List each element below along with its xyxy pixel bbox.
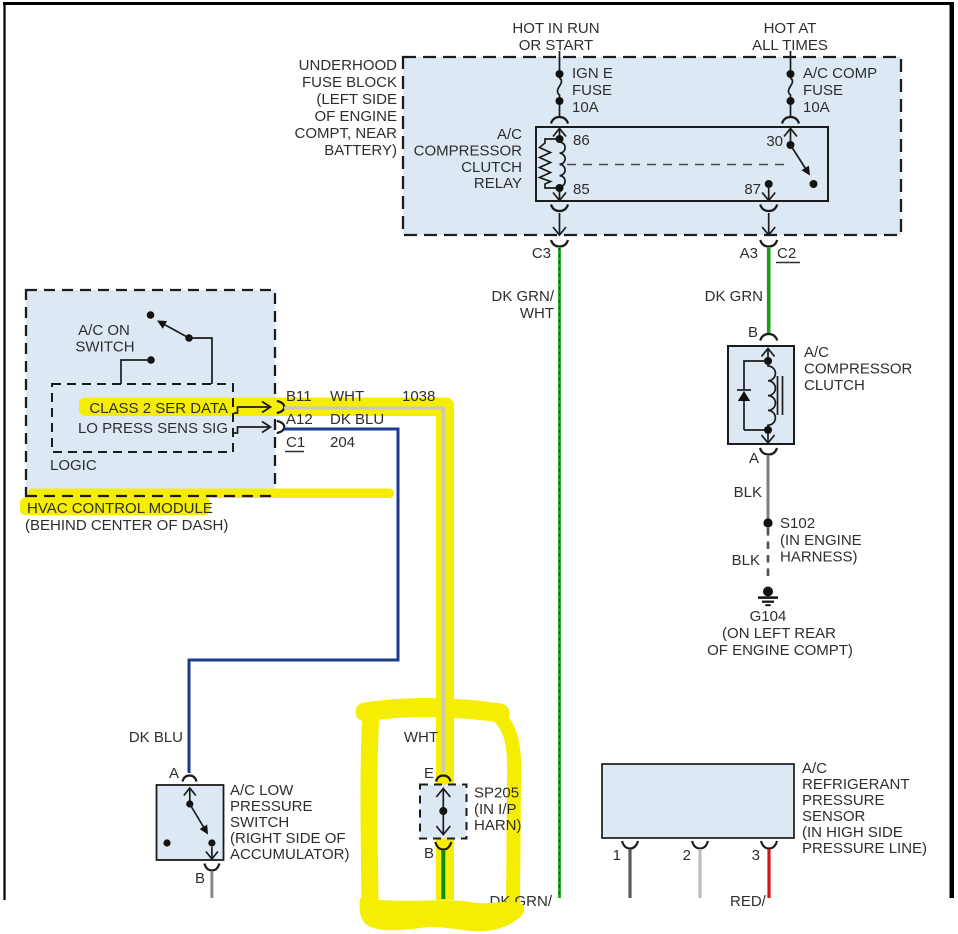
- wire highlight vertical band over WHT wire: [436, 402, 454, 900]
- svg-text:B: B: [748, 324, 758, 341]
- svg-text:C2: C2: [777, 245, 796, 262]
- svg-text:2: 2: [683, 847, 691, 864]
- arrow CLASS 2 SER DATA to pin B11: [234, 402, 271, 414]
- arrow at fuse block edge A3: [762, 227, 775, 235]
- relay pin 86 arrow: [553, 129, 566, 140]
- svg-text:85: 85: [573, 181, 590, 198]
- splice SP205 box: [420, 785, 522, 839]
- relay pin 30 arrow: [784, 129, 797, 146]
- ground G104: [707, 587, 853, 660]
- pressure switch pin A arrow: [184, 788, 196, 804]
- pressure switch pivot dot: [186, 800, 193, 807]
- wire sensor pin 2: [698, 849, 701, 898]
- svg-text:A/C COMP: A/C COMP: [803, 65, 877, 82]
- svg-text:SP205: SP205: [474, 785, 519, 802]
- wire BLK dashed S102 to ground: [767, 528, 770, 581]
- connector cup C3: [551, 240, 568, 247]
- svg-text:IGN E: IGN E: [572, 65, 613, 82]
- clutch pin A arrow down: [762, 434, 775, 443]
- A/C on switch lower contact dot: [147, 356, 155, 364]
- connector cup pin B11: [277, 401, 285, 413]
- svg-text:CLUTCH: CLUTCH: [461, 159, 522, 176]
- A/C on switch arm: [157, 321, 189, 339]
- relay coil inductor bumps: [560, 139, 566, 188]
- connector cup SP205 pin E: [436, 776, 451, 782]
- wire DK BLU from A12 to pressure switch: [189, 429, 398, 773]
- underhood fuse block label: [294, 57, 397, 159]
- svg-text:1038: 1038: [402, 388, 435, 405]
- svg-text:FUSE: FUSE: [803, 82, 843, 99]
- node label HOT IN RUN OR START: [512, 20, 599, 54]
- wire WHT from B11 to SP205: [284, 408, 443, 772]
- module bottom dashed edge redrawn over highlight: [26, 495, 275, 497]
- wire sensor pin 1: [628, 849, 631, 898]
- logic box inside HVAC module: [50, 384, 233, 474]
- connector cup sensor pin 1: [622, 841, 638, 849]
- svg-text:RED/: RED/: [730, 893, 767, 910]
- wire DK GRN/WHT from C3 down page: [558, 248, 561, 898]
- highlight streak along module bottom edge: [28, 489, 394, 499]
- svg-text:WHT: WHT: [520, 305, 554, 322]
- fuse F1 IGN E FUSE 10A: [556, 65, 613, 116]
- connector label C1 underlined: [285, 434, 305, 452]
- svg-text:HOT IN RUN: HOT IN RUN: [512, 20, 599, 37]
- svg-text:(IN I/P: (IN I/P: [474, 801, 517, 818]
- node label HOT AT ALL TIMES: [752, 20, 828, 54]
- relay pin 87 arrow down: [762, 188, 775, 201]
- hand-drawn highlighter loop around SP205 (left edge): [369, 713, 371, 903]
- clutch top junction dot: [764, 357, 772, 365]
- svg-text:COMPRESSOR: COMPRESSOR: [414, 143, 523, 160]
- A/C compressor clutch U2: [728, 344, 913, 444]
- wire fuse F2 to relay pin 30: [790, 105, 792, 116]
- svg-text:HARNESS): HARNESS): [780, 549, 858, 566]
- svg-text:204: 204: [330, 434, 355, 451]
- svg-text:CLUTCH: CLUTCH: [804, 377, 865, 394]
- A/C on switch pivot dot: [185, 334, 193, 342]
- svg-text:HOT AT: HOT AT: [764, 20, 817, 37]
- svg-text:(LEFT SIDE: (LEFT SIDE: [316, 91, 397, 108]
- HVAC control module box: [26, 290, 275, 496]
- svg-text:OF ENGINE: OF ENGINE: [314, 108, 397, 125]
- relay pin 87 dot: [765, 180, 773, 188]
- clutch plate bars: [778, 376, 783, 415]
- arrow at fuse block edge C3: [553, 227, 566, 235]
- hand-drawn highlighter loop bottom swash: [359, 897, 524, 931]
- svg-text:A/C LOW: A/C LOW: [230, 782, 294, 799]
- underhood fuse block box: [403, 57, 901, 235]
- svg-text:LOGIC: LOGIC: [50, 457, 97, 474]
- svg-text:OF ENGINE COMPT): OF ENGINE COMPT): [707, 642, 853, 659]
- pressure switch pin B arrow down: [206, 847, 218, 859]
- wire highlight band over CLASS 2 SER DATA row: [79, 398, 453, 417]
- svg-text:CLASS 2 SER DATA: CLASS 2 SER DATA: [89, 400, 228, 417]
- svg-text:30: 30: [766, 133, 783, 150]
- clutch pin B arrow: [762, 349, 775, 362]
- svg-text:A12: A12: [286, 411, 313, 428]
- svg-text:A/C: A/C: [802, 760, 827, 777]
- wire GRY from pressure switch B: [210, 871, 213, 898]
- wire DK GRN from C2 to clutch pin B: [767, 248, 771, 333]
- pressure switch unused contact dot: [163, 839, 170, 846]
- hand-drawn highlighter loop around SP205 (right edge): [497, 715, 514, 906]
- svg-text:ACCUMULATOR): ACCUMULATOR): [230, 846, 349, 863]
- connector cup sensor pin 3: [761, 841, 777, 849]
- svg-text:10A: 10A: [803, 99, 830, 116]
- connector cup pin A12: [277, 421, 285, 433]
- svg-text:OR START: OR START: [519, 37, 593, 54]
- svg-text:DK GRN/: DK GRN/: [491, 288, 554, 305]
- svg-text:PRESSURE: PRESSURE: [802, 792, 885, 809]
- svg-text:HVAC CONTROL MODULE: HVAC CONTROL MODULE: [27, 500, 213, 517]
- wire feed from HOT IN RUN: [559, 51, 561, 70]
- relay coil resistor zigzag: [540, 139, 560, 188]
- svg-text:LO PRESS SENS SIG: LO PRESS SENS SIG: [78, 420, 228, 437]
- relay pin 85 arrow down: [553, 192, 566, 201]
- svg-text:WHT: WHT: [404, 729, 438, 746]
- svg-text:87: 87: [744, 181, 761, 198]
- svg-text:REFRIGERANT: REFRIGERANT: [802, 776, 910, 793]
- relay internal dashed link coil to switch: [567, 164, 788, 166]
- svg-text:DK BLU: DK BLU: [129, 729, 183, 746]
- svg-text:1: 1: [613, 847, 621, 864]
- relay switch arm: [791, 145, 811, 176]
- svg-text:A: A: [169, 765, 179, 782]
- svg-text:C3: C3: [532, 245, 551, 262]
- pressure switch arm: [190, 804, 208, 835]
- svg-text:FUSE: FUSE: [572, 82, 612, 99]
- svg-text:RELAY: RELAY: [474, 175, 522, 192]
- A/C low pressure switch S1: [157, 782, 350, 863]
- relay coil junction dot 85: [556, 184, 564, 192]
- wire label DK GRN/WHT: [491, 288, 554, 322]
- connector cup A3/C2: [760, 240, 777, 247]
- wire lower contact to logic: [121, 360, 151, 384]
- svg-text:3: 3: [752, 847, 760, 864]
- svg-text:A/C: A/C: [497, 126, 522, 143]
- relay K1 A/C compressor clutch relay: [414, 126, 828, 201]
- svg-text:DK GRN: DK GRN: [705, 288, 763, 305]
- connector cup clutch pin B: [760, 334, 777, 341]
- svg-text:B: B: [424, 845, 434, 862]
- highlight over HVAC CONTROL MODULE label: [20, 498, 210, 516]
- pressure switch contact dot: [208, 839, 215, 846]
- A/C on switch label: [75, 322, 134, 356]
- wire DK GRN from SP205 B: [441, 850, 445, 899]
- wire feed from HOT AT ALL TIMES: [790, 51, 792, 70]
- connector cup at relay pin 30: [782, 117, 799, 124]
- connector cup sensor pin 2: [692, 841, 708, 849]
- SP205 pin B arrow down: [436, 811, 450, 835]
- svg-text:(IN ENGINE: (IN ENGINE: [780, 532, 862, 549]
- clutch coil inductor: [768, 361, 775, 430]
- svg-text:BLK: BLK: [734, 484, 762, 501]
- svg-text:G104: G104: [750, 608, 787, 625]
- svg-text:SENSOR: SENSOR: [802, 808, 866, 825]
- wire BLK clutch to S102: [767, 456, 770, 519]
- svg-text:FUSE BLOCK: FUSE BLOCK: [302, 74, 397, 91]
- A/C refrigerant pressure sensor B1: [602, 760, 927, 857]
- SP205 splice dot: [439, 807, 447, 815]
- svg-text:PRESSURE LINE): PRESSURE LINE): [802, 840, 927, 857]
- connector cup pressure switch pin A: [183, 776, 197, 782]
- svg-text:WHT: WHT: [330, 388, 364, 405]
- wire sensor pin 3 RED: [767, 849, 770, 898]
- connector label C2 underlined: [776, 245, 800, 263]
- clutch diode branch bottom wire: [744, 429, 768, 431]
- svg-text:PRESSURE: PRESSURE: [230, 798, 313, 815]
- fuse F2 A/C COMP FUSE 10A: [787, 65, 878, 116]
- splice S102: [763, 515, 861, 566]
- svg-text:C1: C1: [286, 434, 305, 451]
- wire relay 85 to fuse block edge: [559, 213, 561, 234]
- svg-text:UNDERHOOD: UNDERHOOD: [299, 57, 398, 74]
- wire relay 87 to fuse block edge: [768, 213, 770, 234]
- svg-text:(ON LEFT REAR: (ON LEFT REAR: [722, 625, 836, 642]
- A/C on switch open contact dot: [147, 311, 155, 319]
- clutch bottom junction dot: [764, 426, 772, 434]
- svg-text:BATTERY): BATTERY): [324, 142, 397, 159]
- connector cup at relay pin 86: [551, 117, 568, 124]
- relay coil junction dot 86: [556, 135, 564, 143]
- clutch diode branch wire: [744, 361, 768, 389]
- svg-text:(IN HIGH SIDE: (IN HIGH SIDE: [802, 824, 903, 841]
- svg-text:DK BLU: DK BLU: [330, 411, 384, 428]
- svg-text:S102: S102: [780, 515, 815, 532]
- SP205 pin E arrow: [436, 789, 450, 812]
- svg-text:A/C: A/C: [804, 344, 829, 361]
- svg-text:10A: 10A: [572, 99, 599, 116]
- svg-text:B: B: [195, 870, 205, 887]
- svg-text:B11: B11: [286, 388, 312, 405]
- wire switch pivot to logic: [189, 338, 212, 384]
- svg-text:COMPT, NEAR: COMPT, NEAR: [294, 125, 397, 142]
- connector cup SP205 pin B: [435, 842, 451, 850]
- svg-text:E: E: [424, 765, 434, 782]
- svg-text:A: A: [749, 450, 759, 467]
- hand-drawn highlighter loop around SP205 (top edge): [365, 708, 500, 713]
- svg-text:86: 86: [573, 132, 590, 149]
- diode D1: [737, 390, 751, 430]
- svg-text:COMPRESSOR: COMPRESSOR: [804, 361, 913, 378]
- relay switch pivot dot 30: [787, 141, 795, 149]
- svg-text:(BEHIND CENTER OF DASH): (BEHIND CENTER OF DASH): [25, 517, 228, 534]
- svg-text:SWITCH: SWITCH: [75, 339, 134, 356]
- svg-text:A3: A3: [740, 245, 758, 262]
- svg-text:BLK: BLK: [732, 552, 760, 569]
- svg-text:(RIGHT SIDE OF: (RIGHT SIDE OF: [230, 830, 346, 847]
- arrow LO PRESS SENS SIG to pin A12: [234, 422, 271, 434]
- relay switch contact dot: [810, 180, 818, 188]
- svg-text:HARN): HARN): [474, 817, 522, 834]
- svg-text:SWITCH: SWITCH: [230, 814, 289, 831]
- wire fuse F1 to relay pin 86: [559, 105, 561, 116]
- svg-text:A/C ON: A/C ON: [78, 322, 130, 339]
- connector cup below relay pin 87: [760, 205, 777, 212]
- connector cup clutch pin A: [760, 448, 777, 455]
- connector cup below relay pin 85: [551, 205, 568, 212]
- connector cup pressure switch pin B: [204, 864, 219, 871]
